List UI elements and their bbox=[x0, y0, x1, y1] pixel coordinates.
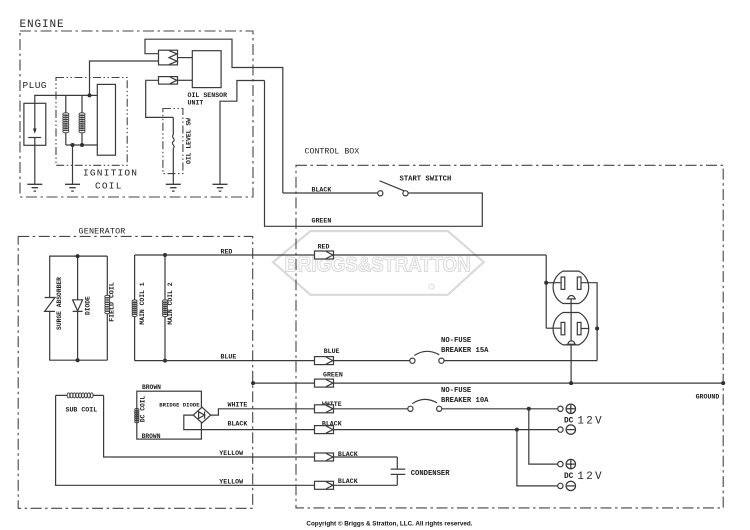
svg-text:GENERATOR: GENERATOR bbox=[79, 227, 126, 237]
svg-text:WHITE: WHITE bbox=[228, 401, 248, 408]
engine enclosure box bbox=[20, 31, 253, 197]
svg-text:OIL SENSOR: OIL SENSOR bbox=[188, 92, 228, 99]
wire ignition coil bottom rail bbox=[66, 144, 98, 146]
DC terminal stud 1 plus bbox=[566, 404, 575, 413]
connector CN1 (2-pin) bbox=[159, 50, 178, 65]
wire to receptacle 2 left bbox=[546, 327, 561, 329]
connector blue bbox=[315, 357, 334, 365]
wire white tap down to second DC plus bbox=[529, 409, 558, 464]
node junction bottom rail right bbox=[80, 143, 84, 147]
svg-text:START SWITCH: START SWITCH bbox=[400, 175, 452, 183]
svg-text:BREAKER 15A: BREAKER 15A bbox=[441, 347, 489, 355]
wire junction up to connector CN1 lower pin bbox=[90, 61, 159, 95]
ground (ignition coil) bbox=[65, 184, 80, 191]
dc coil box bbox=[137, 391, 202, 439]
dc coil winding bbox=[135, 409, 139, 412]
DC terminal stud 2 plus bbox=[566, 459, 575, 468]
svg-text:SUB COIL: SUB COIL bbox=[66, 406, 98, 413]
condenser C1 bbox=[396, 457, 398, 485]
wire receptacle neutral stem to ground row bbox=[570, 299, 572, 383]
svg-text:DC: DC bbox=[564, 473, 574, 481]
node red to receptacle 1 bbox=[544, 281, 548, 285]
node neutral at green row bbox=[569, 381, 573, 385]
svg-text:GREEN: GREEN bbox=[323, 371, 343, 378]
svg-text:DC: DC bbox=[564, 417, 574, 425]
connector black bbox=[315, 426, 334, 434]
svg-text:BLACK: BLACK bbox=[228, 421, 248, 428]
connector white bbox=[315, 405, 334, 413]
svg-text:BRIDGE DIODE: BRIDGE DIODE bbox=[159, 402, 200, 409]
ignition coil primary winding L1 bbox=[65, 95, 67, 145]
connector CN2 (1-pin) bbox=[159, 77, 178, 85]
connector yellow2 bbox=[315, 481, 334, 489]
DC terminal ring 1 minus bbox=[558, 427, 563, 432]
node white row tap bbox=[527, 407, 531, 411]
svg-text:CONDENSER: CONDENSER bbox=[411, 470, 451, 478]
svg-text:PLUG: PLUG bbox=[23, 80, 47, 91]
svg-text:YELLOW: YELLOW bbox=[219, 478, 243, 485]
oil level switch box bbox=[163, 109, 183, 174]
wire black tap down to second DC minus bbox=[517, 430, 558, 486]
ground (plug) bbox=[27, 184, 42, 191]
ignition coil secondary winding L2 bbox=[81, 95, 83, 145]
svg-text:DC COIL: DC COIL bbox=[140, 395, 147, 422]
no-fuse breaker 15A CB1 bbox=[410, 358, 415, 363]
wire receptacle 1 slots bbox=[553, 282, 589, 284]
svg-text:BLUE: BLUE bbox=[221, 354, 237, 361]
diode D1 branch bbox=[77, 256, 79, 360]
ignition coil core rectangle bbox=[97, 84, 115, 155]
wire to receptacle 1 left bbox=[546, 282, 561, 284]
svg-text:BLUE: BLUE bbox=[324, 348, 340, 355]
svg-text:NO-FUSE: NO-FUSE bbox=[441, 387, 472, 395]
wire RED rail from main coils bbox=[135, 254, 547, 256]
svg-text:IGNITION: IGNITION bbox=[83, 168, 138, 179]
svg-text:BLACK: BLACK bbox=[338, 478, 358, 485]
spark plug gap electrode bbox=[28, 137, 41, 139]
DC terminal ring 2 minus bbox=[558, 483, 563, 488]
wire CN2 to oil sensor unit bbox=[178, 79, 193, 81]
wire receptacle 2 slots bbox=[553, 327, 589, 329]
connector yellow1 bbox=[315, 453, 334, 461]
wire CN1 to oil sensor unit bbox=[178, 57, 193, 59]
oil level switch SW1 bbox=[172, 117, 174, 134]
svg-text:MAIN COIL 2: MAIN COIL 2 bbox=[167, 282, 174, 324]
node green row right end bbox=[721, 381, 725, 385]
svg-text:GROUND: GROUND bbox=[696, 393, 720, 400]
wire bridge diode to white row bbox=[211, 409, 408, 415]
wire connector CN1 upper pin loop to black wire bbox=[145, 39, 283, 193]
spark plug P1 body bbox=[24, 103, 46, 145]
svg-text:RED: RED bbox=[318, 244, 330, 251]
svg-text:BREAKER 10A: BREAKER 10A bbox=[441, 397, 489, 405]
connector red bbox=[315, 251, 334, 259]
wire plug to ground bbox=[34, 138, 36, 185]
svg-text:BROWN: BROWN bbox=[142, 384, 161, 391]
node green at generator frame bbox=[251, 381, 255, 385]
node receptacle 2 right bbox=[595, 327, 599, 331]
oil sensor unit U1 bbox=[192, 51, 221, 88]
node junction primary rail bbox=[88, 93, 92, 97]
svg-text:COIL: COIL bbox=[95, 181, 123, 192]
wire BLUE rail from main coils bbox=[135, 360, 410, 362]
svg-text:12V: 12V bbox=[577, 471, 604, 483]
wire bridge diode to black row bbox=[184, 415, 558, 430]
receptacle R2 (120V outlet) bbox=[553, 313, 589, 345]
wire GREEN ground row from generator frame bbox=[253, 382, 723, 384]
generator enclosure box bbox=[18, 236, 253, 508]
svg-text:12V: 12V bbox=[577, 415, 604, 427]
wire plug to ignition coil primary bbox=[35, 95, 98, 103]
sub coil winding bbox=[56, 394, 104, 396]
control box enclosure bbox=[296, 165, 723, 508]
svg-text:CONTROL BOX: CONTROL BOX bbox=[305, 148, 360, 157]
wire breaker 10A to DC plus bbox=[442, 408, 558, 410]
svg-text:UNIT: UNIT bbox=[188, 99, 204, 106]
spark plug center electrode with arrow bbox=[34, 103, 36, 128]
DC terminal ring 1 plus bbox=[558, 406, 563, 411]
wire sub coil right end to yellow1 row bbox=[104, 395, 398, 457]
ignition coil dashed box bbox=[56, 78, 127, 166]
node diode top bbox=[76, 254, 80, 258]
svg-text:BLACK: BLACK bbox=[338, 451, 358, 458]
node diode bottom bbox=[76, 358, 80, 362]
Briggs & Stratton watermark logo bbox=[273, 231, 484, 295]
svg-text:MAIN COIL 1: MAIN COIL 1 bbox=[139, 282, 146, 324]
node black row tap bbox=[515, 428, 519, 432]
node junction bottom rail left bbox=[71, 143, 75, 147]
wire red down to receptacles bbox=[545, 255, 547, 328]
connector green bbox=[315, 379, 334, 387]
wire BLACK row to start switch bbox=[283, 192, 378, 194]
DC terminal stud 2 minus bbox=[566, 481, 575, 490]
node main coil 2 bottom bbox=[163, 359, 167, 363]
no-fuse breaker 10A CB2 bbox=[408, 406, 413, 411]
surge absorber Z1 bbox=[45, 298, 55, 312]
field coil block loop bbox=[50, 256, 108, 360]
wire oil sensor ground net bbox=[220, 81, 265, 185]
wire receptacle right side to blue bbox=[589, 283, 597, 361]
svg-text:GREEN: GREEN bbox=[312, 218, 332, 225]
svg-text:BRIGGS&STRATTON: BRIGGS&STRATTON bbox=[285, 253, 471, 277]
ground (oil sensor) bbox=[213, 184, 228, 191]
bridge diode BR1 diamond bbox=[193, 407, 210, 423]
svg-text:RED: RED bbox=[221, 249, 233, 256]
wire CN2 to oil level switch bbox=[146, 80, 174, 117]
svg-text:Copyright © Briggs & Stratton,: Copyright © Briggs & Stratton, LLC. All … bbox=[306, 520, 472, 528]
ground (oil level switch) bbox=[166, 184, 181, 191]
wire start switch return to green row bbox=[265, 81, 483, 227]
svg-text:BROWN: BROWN bbox=[142, 433, 161, 440]
wire ignition coil to ground bbox=[72, 145, 74, 184]
svg-text:SURGE ABSORBER: SURGE ABSORBER bbox=[56, 277, 63, 330]
svg-text:NO-FUSE: NO-FUSE bbox=[441, 337, 472, 345]
svg-text:BLACK: BLACK bbox=[312, 186, 332, 193]
field coil winding bbox=[106, 256, 108, 360]
svg-text:FIELD COIL: FIELD COIL bbox=[109, 282, 116, 322]
start switch SW2 terminals and blade bbox=[378, 191, 383, 196]
svg-text:OIL LEVEL SW: OIL LEVEL SW bbox=[186, 118, 193, 164]
main coil 2 winding bbox=[164, 255, 166, 361]
svg-text:DIODE: DIODE bbox=[85, 296, 92, 315]
main coil 1 winding bbox=[134, 255, 136, 361]
svg-text:ENGINE: ENGINE bbox=[20, 19, 65, 31]
svg-text:YELLOW: YELLOW bbox=[219, 450, 243, 457]
node main coil 2 top bbox=[163, 253, 167, 257]
wire breaker 15A to receptacle vertical bbox=[444, 360, 597, 362]
wire sub coil left end to yellow2 row bbox=[56, 395, 398, 485]
receptacle R1 (120V outlet) bbox=[553, 271, 589, 303]
DC terminal ring 2 plus bbox=[558, 461, 563, 466]
DC terminal stud 1 minus bbox=[566, 425, 575, 434]
